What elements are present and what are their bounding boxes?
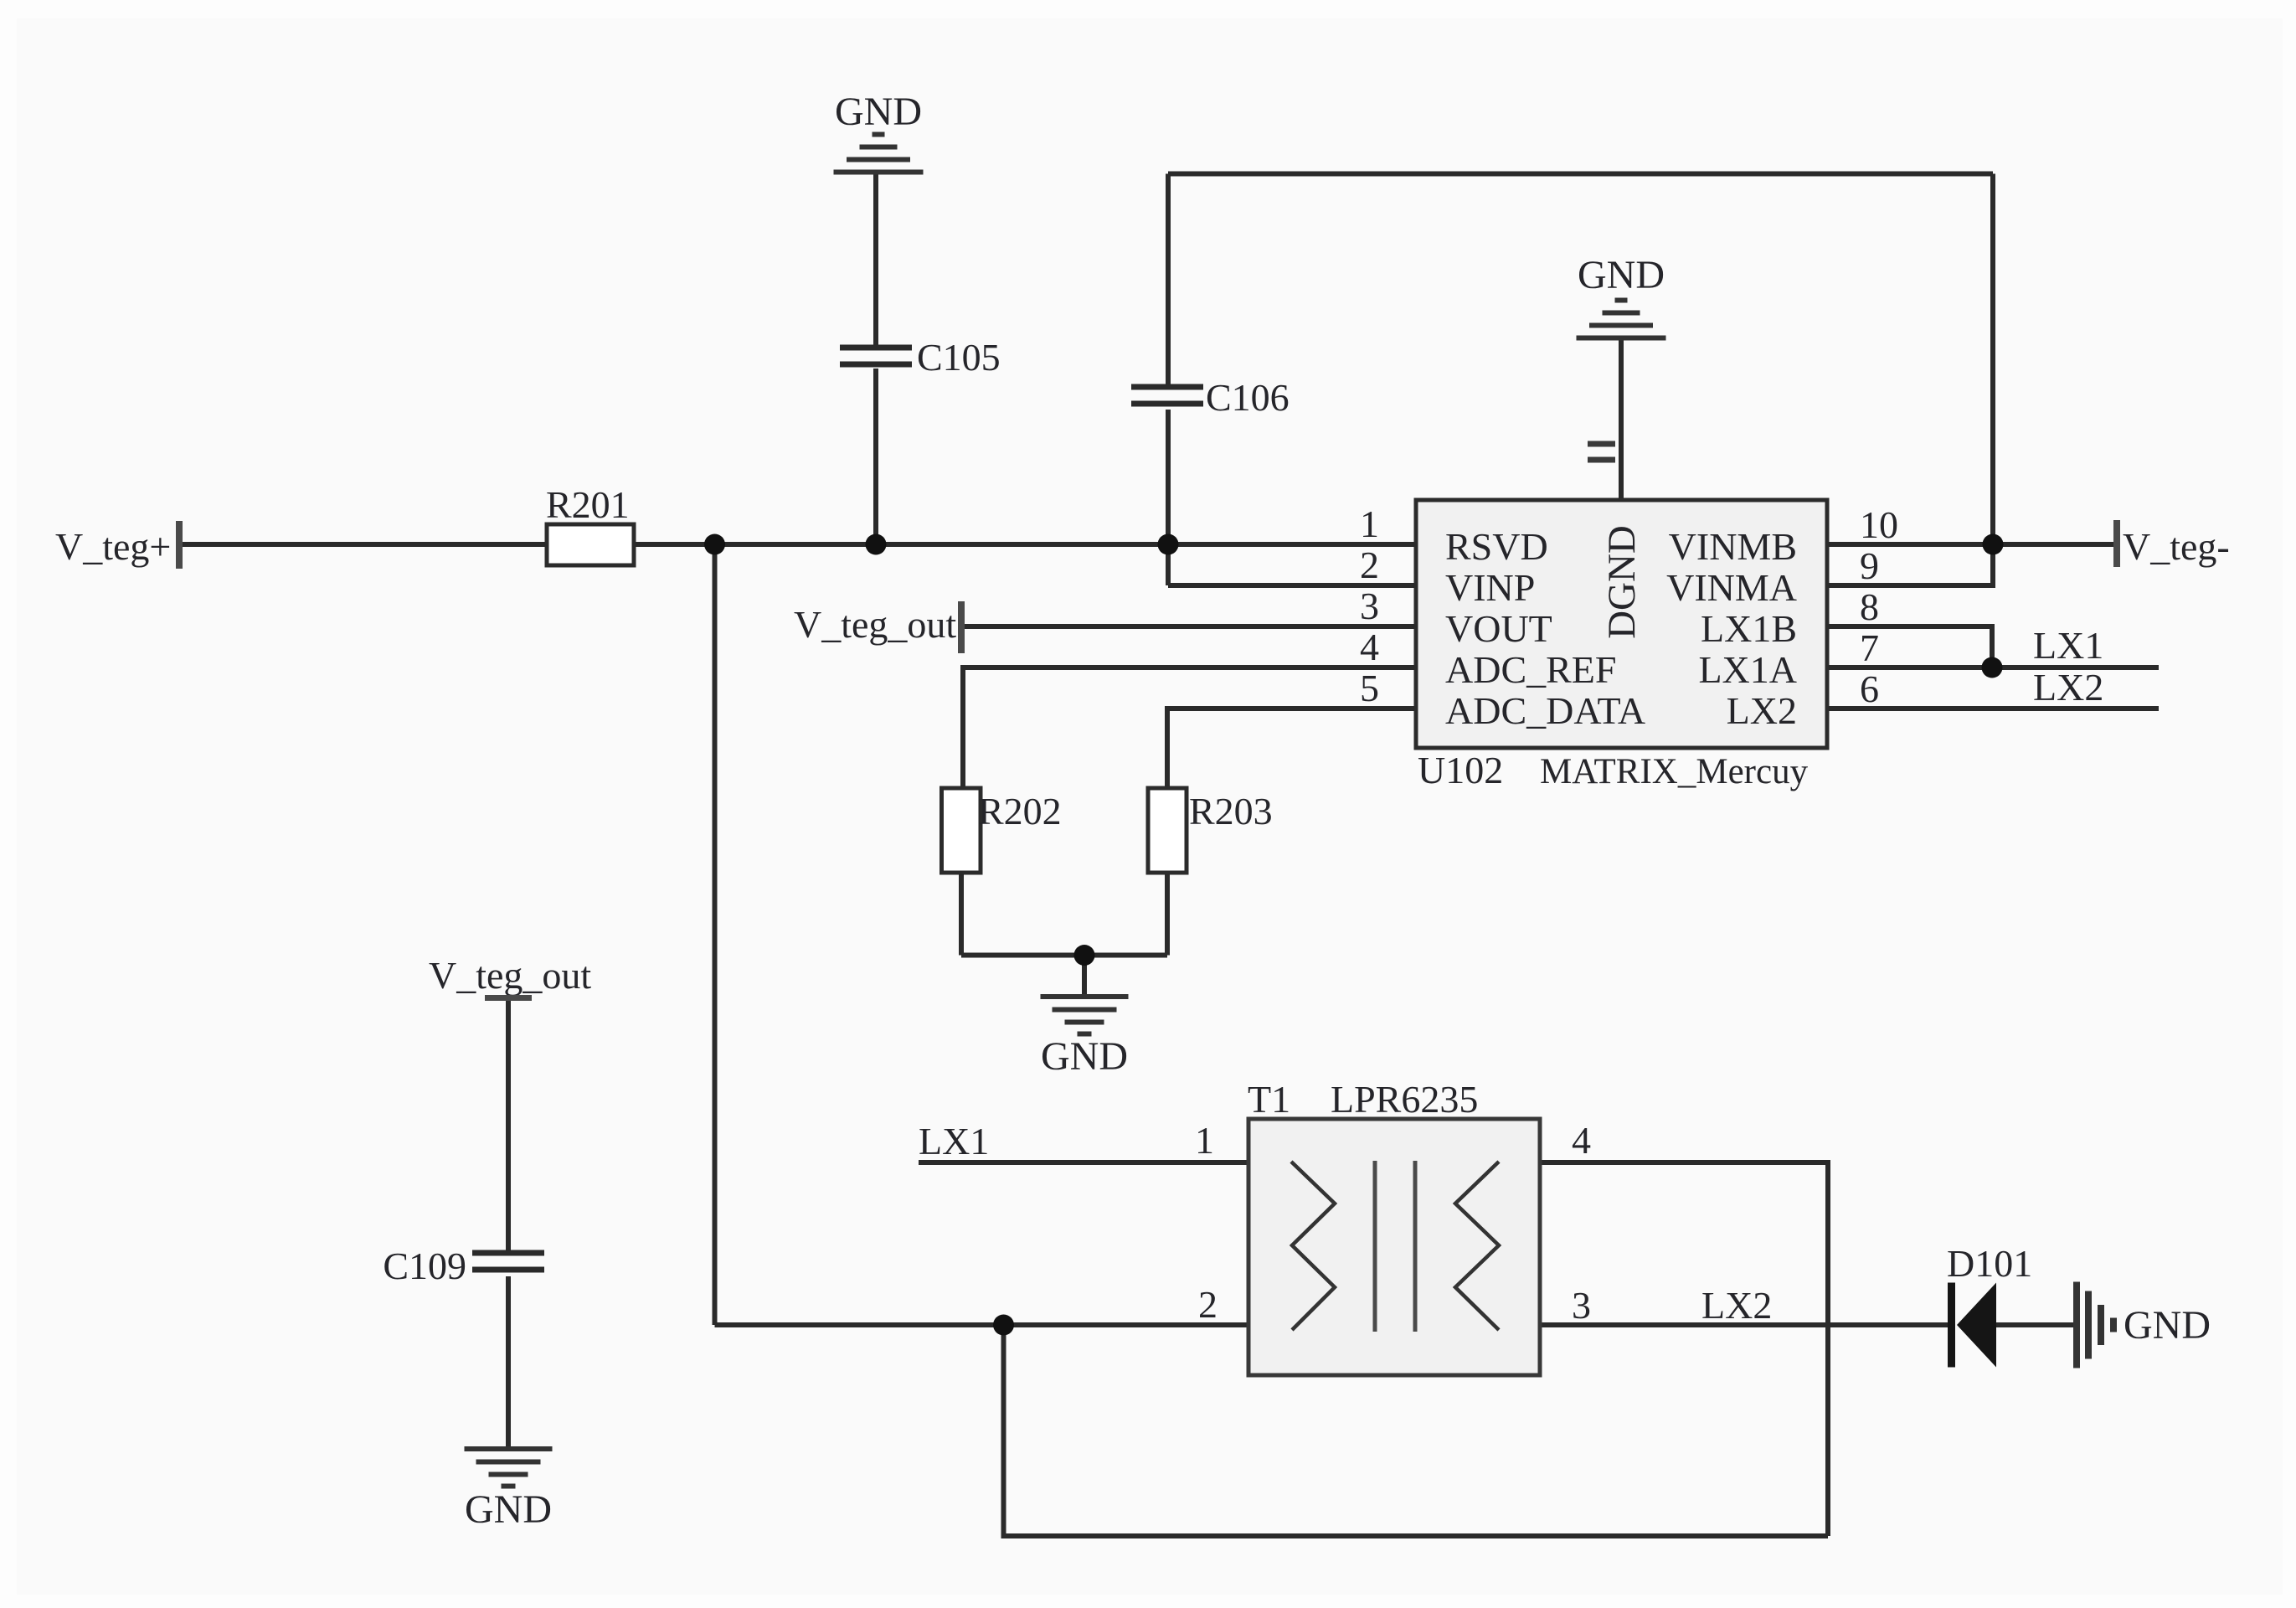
transformer T1 primary winding (1291, 1162, 1335, 1330)
svg-text:R203: R203 (1189, 790, 1273, 832)
wire divider GND stem (1082, 956, 1087, 996)
diode D101 (1948, 1283, 1996, 1368)
svg-text:4: 4 (1360, 626, 1379, 668)
junction pin7/pin8 (LX1) (1982, 657, 2003, 678)
resistor R201 (547, 524, 634, 565)
svg-text:LX2: LX2 (2033, 666, 2103, 709)
svg-text:LX1: LX1 (919, 1120, 989, 1162)
svg-text:V_teg_out: V_teg_out (429, 954, 591, 997)
svg-text:RSVD: RSVD (1445, 525, 1548, 568)
svg-text:9: 9 (1860, 544, 1879, 587)
svg-text:2: 2 (1360, 544, 1379, 586)
svg-text:C106: C106 (1206, 376, 1290, 419)
svg-text:LX2: LX2 (1727, 689, 1797, 732)
svg-text:GND: GND (465, 1487, 552, 1532)
IC U102 body (1416, 500, 1827, 748)
svg-text:GND: GND (1041, 1034, 1128, 1079)
junction main/C106/pin1/pin2 (1158, 534, 1179, 555)
resistor R203 (1148, 788, 1187, 873)
svg-text:GND: GND (835, 90, 922, 134)
svg-text:LX1A: LX1A (1698, 648, 1797, 691)
svg-text:T1: T1 (1248, 1078, 1290, 1121)
svg-text:3: 3 (1360, 585, 1379, 627)
wire bottom return (1004, 1325, 1829, 1536)
svg-text:8: 8 (1860, 585, 1879, 628)
wire U102 pin5 ADC_DATA (1167, 709, 1416, 788)
wire C105 branch upper (GND to C105) (873, 173, 878, 348)
wire C109 to GND (506, 1276, 511, 1449)
svg-text:LX2: LX2 (1701, 1284, 1772, 1327)
ground above U102 (1577, 301, 1666, 338)
junction divider GND (1074, 945, 1095, 966)
svg-text:V_teg_out: V_teg_out (794, 603, 956, 646)
wire left vertical (main to T1 row) (713, 544, 718, 1325)
svg-text:V_teg+: V_teg+ (55, 525, 171, 568)
svg-text:V_teg-: V_teg- (2123, 525, 2230, 568)
svg-text:10: 10 (1860, 503, 1898, 546)
transformer T1 core (1375, 1161, 1415, 1332)
svg-text:ADC_REF: ADC_REF (1445, 648, 1616, 691)
terminal tick V_teg+ (176, 521, 183, 569)
svg-text:2: 2 (1198, 1283, 1217, 1326)
wire top bus (1168, 172, 1993, 177)
wire C106 branch lower (1166, 410, 1171, 585)
wire D101 to GND (1996, 1322, 2075, 1327)
svg-text:D101: D101 (1947, 1242, 2032, 1285)
svg-text:R202: R202 (978, 790, 1062, 832)
svg-text:MATRIX_Mercuy: MATRIX_Mercuy (1540, 752, 1809, 791)
transformer T1 secondary winding (1455, 1162, 1499, 1330)
terminal tick V_teg_out (C109) (485, 995, 532, 1001)
svg-text:VINMA: VINMA (1666, 566, 1797, 609)
wire U102 pin4 ADC_REF (963, 667, 1416, 788)
wire T1 pin2 row (715, 1322, 1249, 1327)
svg-text:C109: C109 (383, 1245, 466, 1287)
svg-text:LPR6235: LPR6235 (1331, 1078, 1478, 1121)
svg-text:ADC_DATA: ADC_DATA (1445, 689, 1645, 732)
ground right of D101 (2077, 1282, 2113, 1368)
wire divider bottom (961, 953, 1167, 958)
svg-text:3: 3 (1572, 1284, 1591, 1327)
svg-text:VOUT: VOUT (1445, 607, 1552, 650)
ground below R202/R203 (1041, 997, 1129, 1034)
svg-text:R201: R201 (546, 483, 630, 526)
svg-text:6: 6 (1860, 667, 1879, 710)
wire U102 pin2 VINP (1168, 583, 1416, 588)
terminal tick V_teg_out (mid) (958, 601, 965, 653)
terminal tick V_teg- (2113, 520, 2120, 567)
wire right vertical (top bus to pin10) (1990, 174, 1995, 545)
svg-text:5: 5 (1360, 667, 1379, 709)
junction main/C105 (866, 534, 887, 555)
svg-text:U102: U102 (1418, 749, 1503, 791)
junction T1 pin2 row / bottom return (993, 1315, 1014, 1336)
wire LX1 to T1 pin1 (919, 1160, 1248, 1165)
svg-text:4: 4 (1572, 1119, 1591, 1162)
svg-text:LX1: LX1 (2033, 624, 2103, 667)
wire V_teg_out to U102 pin3 VOUT (961, 624, 1416, 629)
wire U102 pin10 to V_teg- (1827, 542, 2113, 547)
capacitor C106 (1131, 387, 1203, 404)
ground below C109 (465, 1449, 553, 1487)
wire DGND branch (GND to U102 top) (1619, 339, 1624, 500)
hidden-pin marks near DGND wire (1588, 444, 1615, 460)
svg-text:LX1B: LX1B (1701, 607, 1797, 650)
wire C106 branch upper (1166, 174, 1171, 389)
capacitor C105 (840, 348, 912, 364)
wire V_teg_out to C109 (506, 1000, 511, 1254)
svg-text:GND: GND (1578, 253, 1665, 297)
svg-text:1: 1 (1195, 1119, 1214, 1162)
capacitor C109 (472, 1253, 544, 1270)
svg-text:VINP: VINP (1445, 566, 1535, 609)
resistor R202 (942, 788, 981, 873)
svg-text:7: 7 (1860, 626, 1879, 669)
junction pin10/right-vertical (1983, 534, 2004, 555)
wire main V_teg+ to U102 pin1 (183, 542, 1416, 547)
wire pin10 to pin9 jog (1827, 544, 1993, 585)
svg-text:1: 1 (1360, 502, 1379, 545)
wire T1 pin3 LX2 to D101 (1540, 1322, 1949, 1327)
wire C105 branch lower (C105 to main) (873, 368, 878, 544)
svg-text:GND: GND (2124, 1303, 2211, 1348)
wire R202 to divider bottom (959, 873, 964, 956)
ground above C105 (834, 135, 924, 173)
wire pin8 LX1B jog to pin7 (1827, 626, 1992, 667)
junction main/left-vertical (704, 534, 725, 555)
svg-text:VINMB: VINMB (1669, 525, 1797, 568)
wire R203 to divider bottom (1165, 873, 1170, 956)
svg-text:DGND: DGND (1600, 525, 1644, 639)
wire U102 pin6 LX2 (1827, 706, 2159, 711)
svg-text:C105: C105 (917, 336, 1001, 379)
wire U102 pin7 LX1A to LX1 (1827, 665, 2159, 670)
transformer T1 body (1248, 1119, 1540, 1375)
wire T1 pin4 to right vertical (1540, 1162, 1828, 1536)
